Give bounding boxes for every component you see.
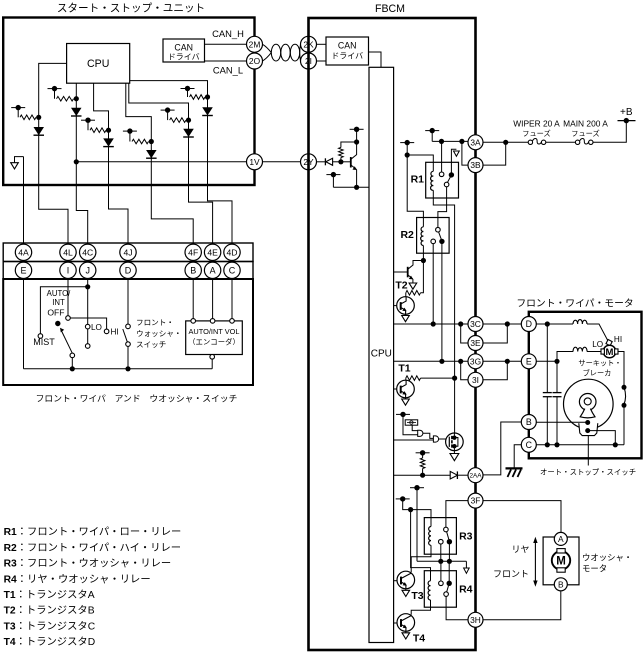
label T3 [411, 590, 423, 602]
svg-text:CAN: CAN [174, 43, 193, 53]
svg-text:HI: HI [614, 335, 622, 344]
svg-text:4J: 4J [123, 247, 132, 257]
connector pin I [60, 262, 76, 278]
connector pin 3E [468, 336, 483, 351]
wire E column to common line [23, 279, 25, 369]
wire coil rail to R2 coil [407, 155, 423, 227]
washer motor box [543, 537, 579, 585]
wire 3G to E [483, 359, 521, 364]
wire CPU to Q2b base [394, 305, 400, 307]
wire R3 coil to T3 [411, 545, 431, 572]
label rear [511, 545, 529, 555]
svg-text:フューズ: フューズ [522, 129, 550, 138]
svg-text:A: A [210, 266, 216, 276]
connector pin B [185, 262, 201, 278]
wire LO coil to LO brush [587, 351, 601, 353]
svg-text:2AA: 2AA [469, 473, 482, 480]
connector pin B (motor) [521, 415, 536, 430]
wire fuse to +B [593, 121, 626, 143]
wire 3E branch [461, 324, 468, 343]
connector pin C [224, 262, 240, 278]
wire CPU to gate2 [394, 439, 434, 441]
wire CPU to T2 base [394, 271, 408, 273]
wire gate1 to gate2 [423, 433, 434, 438]
svg-text:E: E [20, 266, 26, 276]
svg-text:CAN_L: CAN_L [213, 65, 243, 76]
svg-text:4D: 4D [227, 247, 238, 257]
svg-text:フロント・ワイパ アンド ウオッシャ・スイッチ: フロント・ワイパ アンド ウオッシャ・スイッチ [36, 394, 238, 404]
wire R3 NC to bus [438, 544, 443, 564]
wire CPU to column A [39, 63, 67, 117]
svg-text:E: E [526, 357, 532, 367]
wire R4 NC to 3H [446, 596, 468, 619]
resistor cell A pull-up [11, 105, 41, 120]
resistor T1 collector [406, 376, 457, 381]
wire D column to washer switch [127, 279, 129, 325]
svg-text:I: I [67, 266, 70, 276]
connector pin 4A [15, 244, 31, 260]
label front wiper motor [516, 298, 633, 310]
svg-text:LO: LO [592, 340, 603, 349]
wire CPU to column E [129, 83, 189, 120]
svg-text:M: M [606, 347, 614, 358]
auto stop switch pointer [587, 436, 589, 466]
washer pin A [554, 532, 567, 545]
svg-text:CAN: CAN [338, 41, 357, 51]
wire CPU to T4 base [394, 622, 401, 624]
contact rotary blade tip [70, 353, 75, 358]
contact washer switch bottom [126, 342, 131, 347]
label FBCM [375, 3, 405, 15]
cam contact lower [585, 428, 615, 445]
capacitor C1 [543, 324, 552, 445]
svg-text:B: B [558, 579, 564, 589]
svg-text:R3：フロント・ウオッシャ・リレー: R3：フロント・ウオッシャ・リレー [4, 558, 172, 570]
contact LO lower [85, 344, 90, 349]
wiper motor M [601, 345, 618, 358]
contact MIST [38, 334, 43, 339]
ground T4 [402, 631, 410, 639]
svg-text:T1：トランジスタA: T1：トランジスタA [4, 589, 95, 601]
wire CPU to column F [130, 81, 208, 97]
relay R1 coil [431, 171, 434, 190]
CAN driver U11 (start-stop unit) [163, 39, 205, 62]
diode D6 (2AA) [450, 471, 468, 479]
label T4 [413, 633, 425, 645]
label MAIN 200A fuse [563, 119, 608, 139]
connector pin 4D [224, 244, 240, 260]
wire M to breaker [618, 352, 624, 386]
relay R4 box [424, 571, 456, 608]
svg-text:スイッチ: スイッチ [136, 340, 166, 349]
svg-text:R4：リヤ・ウオッシャ・リレー: R4：リヤ・ウオッシャ・リレー [4, 573, 151, 585]
washer bus marker [464, 568, 470, 573]
svg-text:モータ: モータ [582, 564, 607, 574]
label front wiper and washer switch [36, 394, 238, 404]
svg-text:INT: INT [52, 298, 65, 307]
contact R4 NO [439, 581, 444, 586]
connector pin 3H [468, 612, 483, 627]
contact LO [85, 324, 90, 329]
wire CAN driver to 2O [205, 60, 247, 62]
wire C to chassis ground [514, 445, 521, 468]
wire C column to encoder [231, 279, 233, 319]
wire 1V line [76, 161, 246, 163]
svg-text:A: A [558, 534, 564, 544]
label T2 [395, 280, 407, 292]
legend R1 [4, 526, 182, 538]
label CAN_H [212, 28, 244, 39]
wire C ground rail [536, 442, 624, 447]
label circuit breaker [578, 359, 621, 378]
CPU U10 (start-stop unit) [67, 44, 130, 84]
wire B to 2AA [483, 422, 521, 475]
svg-text:T1: T1 [398, 363, 410, 375]
resistor cell B pull-up [48, 86, 79, 101]
wire R1 NC to R2 contact [438, 187, 447, 228]
svg-text:3C: 3C [470, 319, 481, 329]
inductor HI winding [573, 320, 587, 324]
connector pin D [120, 262, 136, 278]
svg-text:R3: R3 [459, 530, 473, 542]
wire R1 coil to long vertical [433, 190, 454, 433]
wire column F to 4D [208, 97, 233, 244]
transistor T3 [397, 571, 415, 589]
power stub R1 R2 coil rail [400, 140, 414, 158]
relay R3 blade [447, 532, 449, 540]
ground MOSFET [450, 451, 459, 461]
wire D to HI coil [536, 321, 573, 326]
wire R2 NC to 3C line [432, 244, 434, 324]
connector pin 3I [468, 372, 483, 387]
svg-text:J: J [85, 266, 90, 276]
resistor base pull-up Q5 [339, 139, 360, 161]
inductor LO winding [573, 347, 587, 351]
relay R2 blade [439, 232, 442, 239]
rear front arrow [533, 537, 537, 587]
svg-text:ウオッシャ・: ウオッシャ・ [582, 553, 632, 563]
resistor cell C pull-up [81, 118, 111, 133]
svg-text:3B: 3B [470, 160, 481, 170]
svg-text:T3: T3 [411, 590, 423, 602]
rotary switch blade [60, 328, 72, 353]
label R2 [400, 229, 414, 241]
svg-text:R2: R2 [400, 229, 414, 241]
connector pin D (motor) [521, 317, 536, 332]
circuit breaker [622, 385, 627, 445]
chassis ground (body) [506, 468, 523, 477]
wire fuse to fuse [546, 141, 576, 143]
contact R2 common [439, 239, 444, 244]
power stub Q5 emitter line [326, 172, 340, 187]
connector pin E (motor) [521, 354, 536, 369]
encoder pin C [230, 319, 235, 324]
svg-text:T4: T4 [413, 633, 425, 645]
label AUTO/INT [47, 289, 72, 307]
wire 2Y to diode [317, 161, 326, 163]
svg-text:3G: 3G [470, 356, 481, 366]
wire 3A to fuse [483, 140, 528, 145]
contact R1 NC [444, 182, 449, 187]
connector pin 1V [247, 154, 263, 170]
label start-stop unit title [57, 3, 205, 15]
wire column A to 4L [39, 117, 68, 244]
svg-text:4C: 4C [82, 247, 93, 257]
ground T1 [402, 397, 410, 405]
connector pin 3B [468, 158, 483, 173]
wire A column to encoder [212, 279, 214, 319]
label WIPER 20A fuse [513, 119, 560, 139]
label auto stop switch [540, 468, 636, 477]
svg-text:FBCM: FBCM [375, 3, 405, 15]
power stub R1 contact rail [425, 128, 439, 141]
svg-text:MIST: MIST [33, 337, 55, 347]
wire coil rail to R4 coil [411, 510, 431, 581]
encoder pin common [210, 355, 215, 360]
wire 3G line [394, 359, 468, 364]
washer pin B [554, 578, 567, 591]
legend R2 [4, 542, 182, 554]
wire washer B to 3H [483, 591, 561, 620]
svg-text:3F: 3F [471, 496, 481, 506]
label LO [91, 323, 102, 332]
connector row box 4X [3, 243, 253, 262]
wire 3F to washer motor [483, 501, 561, 533]
svg-text:HI: HI [111, 328, 119, 337]
rotary switch pivot [55, 321, 60, 326]
label front washer switch [136, 318, 182, 349]
svg-text:CAN_H: CAN_H [212, 28, 244, 39]
svg-text:R1: R1 [411, 174, 425, 186]
svg-text:1V: 1V [249, 157, 260, 167]
svg-text:フロント・ワイパ・モータ: フロント・ワイパ・モータ [516, 298, 633, 310]
contact R3 common [447, 539, 452, 544]
resistor Q2b collector [406, 261, 424, 297]
wire bus to R4 common [448, 561, 450, 583]
svg-text:R4: R4 [459, 584, 473, 596]
connector pin 2I [301, 53, 317, 69]
wire R2 coil to T2 node [421, 246, 426, 264]
connector pin 2AA [468, 468, 483, 483]
label LO (motor) [592, 340, 603, 349]
power stub oscillator [396, 412, 418, 435]
wire CPU to 2AA diode [394, 474, 451, 476]
wire B to cam contact [536, 420, 590, 425]
MOSFET Q6 [446, 433, 464, 451]
contact R3 top [444, 527, 449, 532]
relay R2 box [417, 218, 450, 254]
diode cell C [103, 138, 114, 146]
node base Q5 [338, 159, 343, 164]
label CAN_L [213, 65, 243, 76]
svg-text:（エンコーダ）: （エンコーダ） [188, 338, 240, 347]
brush HI [606, 340, 612, 346]
wire oscillator to gate1 [412, 425, 418, 430]
wire I column to OFF contact [67, 279, 69, 316]
svg-text:CPU: CPU [87, 58, 109, 70]
wire switch common line [24, 368, 213, 370]
wire Q5 emitter to CPU [333, 185, 369, 190]
contact OFF [66, 316, 71, 321]
wire CPU to T1 base [394, 388, 400, 390]
buffer gate G1 [418, 430, 423, 436]
wire 3C line [394, 321, 468, 326]
wire R3 common to bus [447, 542, 452, 564]
label T1 [398, 363, 410, 375]
encoder pin A [210, 319, 215, 324]
svg-text:2M: 2M [249, 39, 261, 49]
connector pin 4F [185, 244, 201, 260]
diode D5 (2Y input) [325, 158, 341, 165]
label front [493, 569, 529, 579]
svg-text:4A: 4A [18, 247, 29, 257]
capacitor C2 [553, 361, 562, 445]
connector pin 3C [468, 317, 483, 332]
label R3 [459, 530, 473, 542]
legend T1 [4, 589, 95, 601]
wire washer switch to common [125, 346, 130, 371]
wire 3B link [462, 141, 468, 165]
contact R4 NC [444, 592, 449, 597]
diode cell B [71, 108, 82, 116]
wire blade tip to common [70, 358, 75, 372]
svg-text:オート・ストップ・スイッチ: オート・ストップ・スイッチ [540, 468, 636, 477]
wire ground column to E pin [23, 157, 25, 245]
wire 2K to CAN driver [317, 43, 327, 45]
wire CPU to column D [126, 83, 152, 141]
wire 3C to D [483, 321, 521, 326]
contact HI [104, 329, 109, 334]
relay R1 blade [447, 176, 450, 182]
svg-text:T3：トランジスタC: T3：トランジスタC [4, 620, 96, 632]
label MIST [33, 337, 55, 347]
connector pin 2K [301, 36, 317, 52]
svg-text:WIPER 20 A: WIPER 20 A [513, 119, 560, 129]
contact R4 common [447, 581, 452, 586]
wire +B rail to 3A [432, 139, 468, 144]
svg-text:AUTO/INT VOL: AUTO/INT VOL [188, 327, 239, 336]
wire gate2 to MOSFET gate [439, 438, 446, 440]
label R4 [459, 584, 473, 596]
svg-text:ウォッシャ・: ウォッシャ・ [136, 329, 182, 338]
resistor 2AA pull [420, 458, 425, 478]
diode cell A [34, 127, 45, 135]
label OFF [47, 308, 64, 318]
contact R2 top [436, 227, 441, 232]
svg-text:R1：フロント・ワイパ・ロー・リレー: R1：フロント・ワイパ・ロー・リレー [4, 526, 182, 538]
power stub washer contact rail [410, 485, 424, 561]
resistor cell F pull-up [181, 86, 211, 100]
oscillator box [405, 420, 418, 425]
svg-text:D: D [125, 266, 132, 276]
svg-text:T2：トランジスタB: T2：トランジスタB [4, 605, 95, 617]
connector pin 4J [120, 244, 136, 260]
washer switch blade [123, 329, 128, 342]
wire CPU to T3 base [394, 580, 400, 582]
svg-text:フロント・: フロント・ [136, 318, 174, 327]
transistor T4 [397, 614, 415, 632]
legend R4 [4, 573, 151, 585]
wire column C to 4J [109, 130, 129, 244]
encoder pin B [191, 319, 196, 324]
label HI [111, 328, 119, 337]
connector pin J [80, 262, 96, 278]
svg-text:ドライバ: ドライバ [331, 52, 363, 61]
fuse MAIN 200A [575, 139, 593, 145]
svg-text:ドライバ: ドライバ [168, 53, 200, 62]
wire CPU to column B [75, 83, 77, 99]
power stub Q5 collector rail [350, 127, 364, 142]
connector pin 2M [247, 36, 263, 52]
connector pin C (motor) [521, 437, 536, 452]
connector pin 2O [247, 53, 263, 69]
cam keyhole [579, 394, 596, 418]
resistor cell D pull-up [123, 128, 154, 144]
label R1 [411, 174, 425, 186]
svg-text:2O: 2O [249, 56, 261, 66]
start-stop unit box [3, 18, 254, 186]
ground Q2b [402, 314, 410, 322]
svg-text:フロント: フロント [493, 569, 529, 579]
transistor Q2b [397, 297, 415, 315]
svg-text:CPU: CPU [371, 349, 392, 360]
relay R2 coil [421, 227, 424, 246]
wire 2I to CAN driver [317, 60, 327, 62]
wire 3I branch [461, 361, 468, 380]
svg-text:ブレーカ: ブレーカ [583, 369, 612, 378]
svg-text:サーキット・: サーキット・ [578, 359, 621, 368]
connector pin 3F [468, 493, 483, 508]
wire column B to 4C [74, 99, 88, 245]
wire OFF to HI contact [70, 318, 106, 329]
svg-text:B: B [526, 417, 532, 427]
contact R1 common [449, 172, 454, 177]
wire CPU to column C [94, 83, 109, 130]
svg-text:D: D [526, 319, 532, 329]
wire bus to R4 NO [440, 561, 442, 581]
encoder box AUTO/INT VOL [186, 321, 243, 355]
FBCM box [309, 18, 476, 650]
connector pin 4E [204, 244, 220, 260]
ground (start-stop unit) [11, 157, 24, 169]
CPU U21 (FBCM) [369, 67, 394, 642]
svg-text:B: B [190, 266, 196, 276]
wire J to MIST contact [40, 287, 87, 334]
wire 3B to 3A node [483, 145, 506, 166]
legend T4 [4, 636, 96, 648]
svg-text:リヤ: リヤ [511, 545, 529, 555]
power stub washer coil rail [396, 496, 431, 526]
resistor cell E pull-up [161, 107, 191, 122]
wire R1 common marker [451, 149, 459, 172]
buffer gate G2 [433, 436, 438, 442]
transistor T1 [397, 380, 415, 398]
svg-text:R2：フロント・ワイパ・ハイ・リレー: R2：フロント・ワイパ・ハイ・リレー [4, 542, 182, 554]
svg-text:3A: 3A [470, 137, 481, 147]
svg-text:T2: T2 [395, 280, 407, 292]
wire coil rail to R1 coil [407, 155, 433, 171]
wire 3F to R3 contact [446, 501, 468, 528]
svg-text:C: C [229, 266, 236, 276]
svg-text:AUTO/: AUTO/ [47, 289, 72, 298]
relay R3 coil [429, 527, 431, 546]
auto stop cam plate [564, 379, 614, 429]
svg-text:4F: 4F [188, 247, 198, 257]
svg-text:C: C [526, 440, 533, 450]
svg-text:3I: 3I [472, 375, 479, 385]
wire HI coil to HI brush [587, 324, 608, 342]
svg-text:3E: 3E [470, 338, 481, 348]
